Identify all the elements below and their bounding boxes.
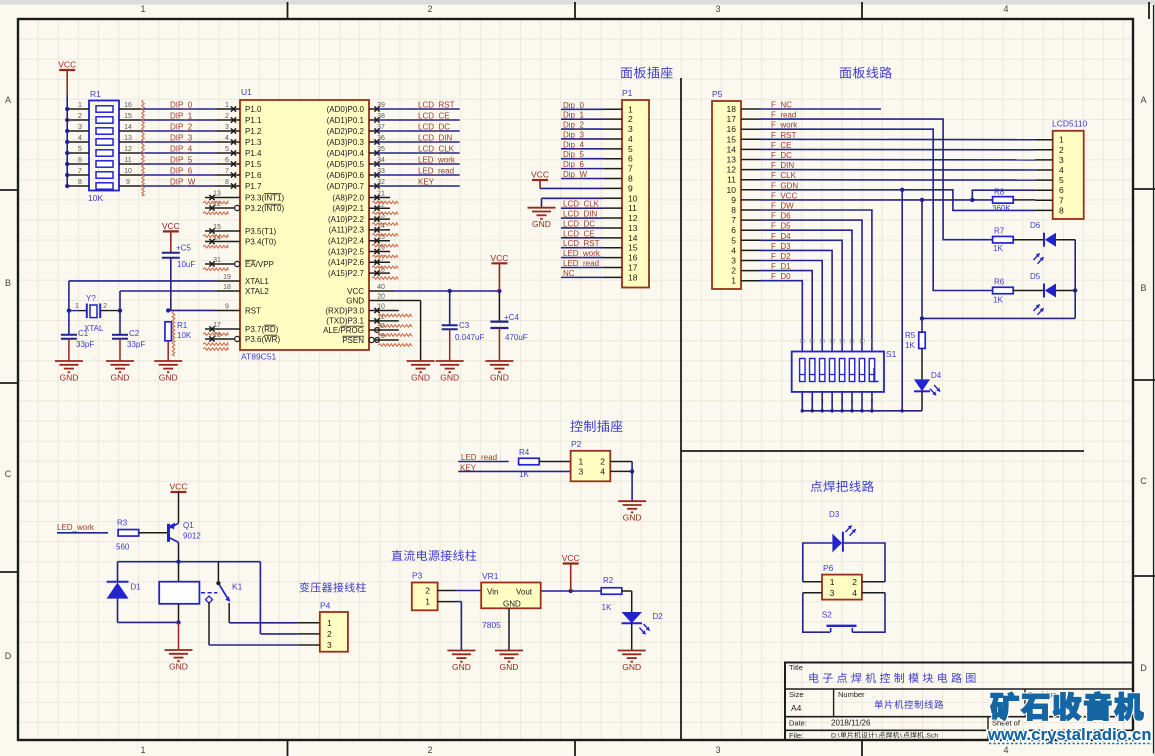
svg-text:R4: R4: [519, 448, 530, 457]
main title 电子点焊机控制模块电路图: [809, 673, 975, 683]
wire R2 to D2: [622, 591, 632, 612]
svg-text:3: 3: [715, 4, 720, 14]
svg-text:4: 4: [1003, 4, 1008, 14]
svg-text:9012: 9012: [183, 532, 201, 541]
wire KEY to P2: [458, 470, 570, 472]
wire XTAL2: [118, 291, 215, 313]
svg-text:2: 2: [425, 586, 430, 596]
svg-text:9: 9: [870, 339, 873, 345]
svg-text:GND: GND: [59, 373, 78, 383]
svg-text:8: 8: [628, 174, 633, 184]
svg-text:+C4: +C4: [504, 313, 519, 322]
svg-text:3: 3: [78, 124, 82, 131]
svg-text:40: 40: [377, 284, 385, 291]
svg-text:4: 4: [600, 466, 605, 476]
node labels LCD/LED/KEY: [418, 101, 456, 187]
svg-text:www.crystalradio.cn: www.crystalradio.cn: [987, 726, 1152, 744]
wire F_GDN: [760, 188, 1035, 411]
svg-text:4: 4: [852, 588, 857, 598]
svg-text:XTAL2: XTAL2: [245, 287, 269, 296]
svg-text:P3.7(RD): P3.7(RD): [245, 325, 279, 334]
section title 变压器接线柱: [300, 582, 367, 592]
wire P3 pin2 to VR1: [456, 590, 482, 592]
svg-text:9: 9: [225, 304, 229, 311]
resistor R5 1K: [905, 331, 925, 350]
svg-text:33pF: 33pF: [76, 340, 94, 349]
svg-text:33pF: 33pF: [127, 340, 145, 349]
svg-text:P1.5: P1.5: [245, 160, 262, 169]
wire P2 right to ground: [610, 462, 634, 502]
wire P6 to S2: [803, 593, 885, 632]
svg-text:Dip_W: Dip_W: [563, 170, 587, 179]
svg-text:17: 17: [213, 322, 221, 329]
svg-text:F_DW: F_DW: [771, 202, 794, 211]
svg-text:R1: R1: [90, 89, 101, 99]
svg-text:B: B: [1140, 283, 1146, 293]
svg-text:2: 2: [427, 745, 432, 755]
power VCC top-left: [58, 60, 76, 96]
svg-text:3: 3: [628, 124, 633, 134]
svg-text:5: 5: [1059, 175, 1064, 185]
U1 left no-ERC markers: [203, 201, 228, 350]
svg-text:F_DC: F_DC: [771, 151, 792, 160]
connector P4: [298, 601, 348, 652]
svg-text:16: 16: [628, 253, 638, 263]
svg-text:Title: Title: [789, 663, 803, 672]
node labels DIP_0..DIP_W: [170, 101, 196, 187]
svg-text:(AD7)P0.7: (AD7)P0.7: [327, 182, 365, 191]
svg-text:13: 13: [829, 339, 835, 345]
svg-text:6: 6: [731, 225, 736, 235]
svg-text:LED_read: LED_read: [418, 167, 454, 176]
wire LED_work to R3: [57, 532, 108, 534]
svg-text:1: 1: [327, 618, 332, 628]
svg-text:18: 18: [727, 104, 737, 114]
svg-text:GND: GND: [159, 373, 178, 383]
svg-text:EA/VPP: EA/VPP: [245, 260, 274, 269]
svg-text:DIP_1: DIP_1: [170, 112, 193, 121]
svg-text:10: 10: [124, 168, 132, 175]
svg-text:1: 1: [225, 102, 229, 109]
svg-text:16: 16: [124, 102, 132, 109]
R1 right pin stubs: [119, 102, 140, 186]
svg-text:5: 5: [628, 144, 633, 154]
svg-text:D: D: [5, 651, 12, 661]
svg-text:DIP_0: DIP_0: [170, 101, 193, 110]
svg-text:Vout: Vout: [516, 588, 533, 597]
svg-text:Dip_6: Dip_6: [563, 160, 584, 169]
svg-text:12: 12: [628, 213, 638, 223]
svg-text:P3: P3: [412, 571, 423, 581]
svg-text:3: 3: [715, 745, 720, 755]
wire contact NC to P4 pin3: [209, 602, 298, 645]
connector P1: [604, 88, 649, 288]
no-ERC vertical marker at R1 outputs: [142, 100, 145, 196]
svg-text:VCC: VCC: [162, 221, 180, 231]
svg-text:8: 8: [731, 205, 736, 215]
crystal Y?: [69, 294, 119, 333]
ground under R1: [154, 361, 182, 383]
wire F_VCC: [760, 190, 1035, 202]
resistor R7 1K: [993, 227, 1014, 254]
svg-text:F_D0: F_D0: [771, 272, 791, 281]
svg-text:14: 14: [124, 124, 132, 131]
svg-text:10K: 10K: [177, 331, 192, 340]
svg-text:(A9)P2.1: (A9)P2.1: [332, 204, 364, 213]
svg-text:4: 4: [225, 135, 229, 142]
svg-text:XTAL1: XTAL1: [245, 277, 269, 286]
wire LED return to R5 node: [920, 316, 1075, 320]
svg-text:KEY: KEY: [418, 178, 435, 187]
svg-text:1: 1: [1059, 135, 1064, 145]
svg-text:\: \: [876, 733, 878, 740]
svg-text:(A14)P2.6: (A14)P2.6: [328, 258, 365, 267]
svg-text:A: A: [5, 95, 11, 105]
svg-text:DIP_2: DIP_2: [170, 123, 193, 132]
wire R4 to P2: [539, 461, 570, 463]
svg-text:1K: 1K: [993, 296, 1003, 305]
svg-text:18: 18: [223, 284, 231, 291]
wire P3 pin1 to ground: [456, 602, 462, 651]
power VCC above C5: [162, 221, 180, 252]
svg-text:4: 4: [78, 135, 82, 142]
svg-text:P3.4(T0): P3.4(T0): [245, 237, 276, 246]
svg-text:10: 10: [727, 185, 737, 195]
svg-text:1: 1: [830, 577, 835, 587]
svg-text:1K: 1K: [602, 603, 612, 612]
svg-text:LCD_RST: LCD_RST: [563, 239, 600, 248]
svg-text:P3.2(INT0): P3.2(INT0): [245, 204, 284, 213]
svg-text:LCD_CE: LCD_CE: [563, 229, 595, 238]
svg-text:DIP_3: DIP_3: [170, 134, 193, 143]
svg-text:P1.3: P1.3: [245, 138, 262, 147]
svg-text:C2: C2: [129, 329, 140, 338]
power VCC above R2: [562, 553, 580, 591]
section title 点焊把线路: [811, 480, 874, 492]
svg-text:GND: GND: [623, 513, 642, 523]
diode D1: [107, 562, 142, 623]
number 单片机控制线路: [875, 700, 944, 709]
svg-text:(AD6)P0.6: (AD6)P0.6: [327, 171, 365, 180]
svg-text:P1.0: P1.0: [245, 105, 262, 114]
svg-text:(A11)P2.3: (A11)P2.3: [329, 226, 365, 235]
regulator VR1 7805: [481, 571, 541, 630]
svg-text:GND: GND: [440, 373, 459, 383]
svg-text:F_D3: F_D3: [771, 242, 791, 251]
resistor R2 1K: [601, 576, 622, 612]
svg-text:U1: U1: [241, 87, 252, 97]
svg-text:15: 15: [809, 339, 815, 345]
svg-text:PSEN: PSEN: [342, 336, 364, 345]
svg-text:(AD5)P0.5: (AD5)P0.5: [327, 160, 365, 169]
svg-text:1: 1: [628, 104, 633, 114]
svg-text:F_CLK: F_CLK: [771, 171, 797, 180]
wire R3 to Q1 base: [139, 532, 168, 534]
svg-text:C: C: [5, 469, 12, 479]
svg-text:F_CE: F_CE: [771, 141, 791, 150]
svg-text:10: 10: [859, 339, 865, 345]
LED D6: [1013, 221, 1056, 264]
svg-text:S1: S1: [886, 349, 897, 359]
switch S1 DIP-8: [792, 349, 897, 392]
svg-text:15: 15: [124, 113, 132, 120]
svg-text:12: 12: [124, 146, 132, 153]
wire S1 bottom bus: [801, 392, 923, 413]
svg-text:LED_read: LED_read: [461, 453, 497, 462]
capacitor C1 33pF: [61, 311, 94, 361]
svg-text:VCC: VCC: [562, 553, 580, 563]
svg-text:DIP_5: DIP_5: [170, 156, 193, 165]
svg-text:F_NC: F_NC: [771, 101, 792, 110]
svg-text:15: 15: [628, 243, 638, 253]
svg-text:6: 6: [225, 157, 229, 164]
svg-text:Size: Size: [789, 690, 804, 699]
wire U1 VCC pin: [394, 289, 502, 293]
svg-text:P1.2: P1.2: [245, 127, 262, 136]
svg-text:12: 12: [839, 339, 845, 345]
node label KEY: [460, 464, 477, 473]
section title 面板线路: [840, 67, 892, 79]
svg-text:C3: C3: [459, 321, 470, 330]
svg-text:1: 1: [425, 597, 430, 607]
svg-text:1: 1: [75, 303, 79, 310]
wires F_RST..F_CLK to LCD: [760, 139, 1035, 180]
svg-text:AT89C51: AT89C51: [241, 352, 277, 362]
LED D5: [1013, 272, 1056, 315]
U1 left pin names: [245, 105, 284, 344]
svg-text:LCD_CLK: LCD_CLK: [418, 145, 455, 154]
svg-text:3: 3: [1059, 155, 1064, 165]
svg-text:7: 7: [628, 164, 633, 174]
svg-text:F_VCC: F_VCC: [771, 191, 797, 200]
svg-text:D1: D1: [131, 583, 142, 592]
svg-text:2: 2: [600, 457, 605, 467]
svg-text:5: 5: [731, 235, 736, 245]
resistor R4 1K: [519, 448, 540, 479]
svg-text:14: 14: [819, 339, 825, 345]
transistor Q1 9012: [169, 521, 202, 542]
svg-text:F_DIN: F_DIN: [771, 161, 794, 170]
capacitor C5 10uF: [162, 244, 196, 270]
wire F_work to R6: [760, 129, 993, 290]
svg-text:17: 17: [628, 263, 638, 273]
svg-text:F_D2: F_D2: [771, 252, 791, 261]
svg-text:C1: C1: [78, 329, 89, 338]
wire LED_read to R4: [458, 461, 508, 463]
svg-text:1: 1: [140, 4, 145, 14]
svg-text:LED_work: LED_work: [563, 249, 601, 258]
switch S2: [822, 611, 857, 633]
svg-text:20: 20: [377, 294, 385, 301]
svg-text:LCD_RST: LCD_RST: [418, 101, 455, 110]
resistor network R1: [88, 89, 119, 203]
svg-text:Y?: Y?: [86, 294, 96, 303]
svg-text:6: 6: [78, 157, 82, 164]
svg-text:F_work: F_work: [771, 121, 798, 130]
ground under D2: [618, 651, 646, 673]
svg-text:R1: R1: [177, 321, 188, 330]
svg-text:16: 16: [799, 339, 805, 345]
svg-text:3: 3: [830, 588, 835, 598]
svg-text:P6: P6: [823, 563, 834, 573]
resistor R1 10K pulldown: [165, 321, 192, 361]
svg-text:+C5: +C5: [176, 244, 191, 253]
svg-text:Number: Number: [838, 690, 865, 699]
svg-text:GND: GND: [411, 373, 430, 383]
svg-text:.Sch: .Sch: [925, 733, 939, 740]
svg-text:GND: GND: [111, 373, 130, 383]
svg-text:(AD3)P0.3: (AD3)P0.3: [327, 138, 365, 147]
LED D3: [829, 510, 856, 552]
svg-text:0.047uF: 0.047uF: [455, 333, 484, 342]
svg-text:(AD1)P0.1: (AD1)P0.1: [327, 116, 365, 125]
svg-text:Dip_1: Dip_1: [563, 111, 584, 120]
svg-text:360K: 360K: [992, 204, 1011, 213]
svg-text:9: 9: [731, 195, 736, 205]
svg-text:A4: A4: [791, 703, 802, 713]
svg-text:(AD0)P0.0: (AD0)P0.0: [327, 105, 365, 114]
ground under C3: [436, 361, 464, 383]
svg-text:DIP_6: DIP_6: [170, 167, 193, 176]
svg-text:P2: P2: [571, 439, 582, 449]
svg-text:P3.6(WR): P3.6(WR): [245, 335, 280, 344]
capacitor C2 33pF: [112, 311, 145, 361]
svg-text:LCD_DIN: LCD_DIN: [418, 134, 452, 143]
svg-text:13: 13: [124, 135, 132, 142]
svg-text:2: 2: [731, 266, 736, 276]
svg-text:(A10)P2.2: (A10)P2.2: [328, 215, 365, 224]
power VCC above C4: [490, 253, 508, 291]
U1 left pin stubs: [205, 102, 240, 341]
svg-text:P1.4: P1.4: [245, 149, 262, 158]
watermark url: [987, 726, 1152, 744]
svg-text:4: 4: [731, 245, 736, 255]
svg-text:7: 7: [1059, 195, 1064, 205]
section title 直流电源接线柱: [392, 550, 477, 561]
connector P2: [571, 439, 611, 481]
svg-text:R3: R3: [117, 519, 128, 528]
svg-text:GND: GND: [503, 600, 521, 609]
power VCC above Q1: [170, 482, 188, 524]
title block frame: [785, 663, 1133, 741]
connector LCD5110: [1035, 119, 1087, 220]
svg-text:VCC: VCC: [347, 287, 364, 296]
svg-text:1: 1: [579, 457, 584, 467]
svg-text:P3.5(T1): P3.5(T1): [245, 227, 276, 236]
op-amp U1 AT89C51 body: [240, 87, 369, 362]
wire Q1 collector: [176, 542, 180, 581]
svg-text:(A13)P2.5: (A13)P2.5: [328, 247, 365, 256]
svg-text:Q1: Q1: [183, 521, 194, 530]
svg-text:6: 6: [628, 154, 633, 164]
svg-text:9: 9: [628, 183, 633, 193]
svg-text:D4: D4: [931, 371, 942, 380]
svg-text:P1.6: P1.6: [245, 171, 262, 180]
title block labels: [789, 663, 1057, 740]
wire F_VCC down to R5: [921, 200, 923, 332]
svg-text:(TXD)P3.1: (TXD)P3.1: [326, 317, 364, 326]
svg-text:Vin: Vin: [487, 588, 498, 597]
node labels P1 nets: [563, 101, 601, 278]
svg-text:F_read: F_read: [771, 111, 796, 120]
svg-text:A: A: [1140, 95, 1146, 105]
ground under relay: [165, 650, 193, 672]
svg-text:13: 13: [727, 155, 737, 165]
svg-text:DIP_4: DIP_4: [170, 145, 193, 154]
wire D5 cathode: [1056, 290, 1075, 292]
svg-text:7: 7: [78, 168, 82, 175]
svg-text:S2: S2: [822, 611, 832, 620]
power VCC at P1 pin9: [531, 170, 604, 189]
svg-text:GND: GND: [500, 662, 519, 672]
ground under C2: [106, 361, 134, 383]
svg-text:2: 2: [628, 114, 633, 124]
wire contact NO to P4 pin1: [229, 603, 298, 623]
svg-text:GND: GND: [622, 662, 641, 672]
section title 控制插座: [570, 420, 622, 432]
svg-text:16: 16: [727, 124, 737, 134]
section title 面板插座: [621, 66, 673, 78]
svg-text:F_D5: F_D5: [771, 222, 791, 231]
node label LED_work: [57, 523, 95, 532]
svg-text:D:\: D:\: [831, 733, 840, 740]
svg-text:R5: R5: [905, 331, 916, 340]
svg-text:\: \: [900, 733, 902, 740]
svg-text:13: 13: [628, 223, 638, 233]
svg-text:VCC: VCC: [531, 170, 549, 180]
svg-text:P3.3(INT1): P3.3(INT1): [245, 193, 284, 202]
resistor R6 1K: [993, 278, 1014, 305]
svg-text:2: 2: [1059, 145, 1064, 155]
svg-text:560: 560: [116, 543, 130, 552]
svg-text:2: 2: [103, 303, 107, 310]
svg-text:Dip_2: Dip_2: [563, 121, 584, 130]
svg-text:10K: 10K: [88, 193, 103, 203]
svg-text:3: 3: [731, 256, 736, 266]
svg-text:12: 12: [727, 165, 737, 175]
svg-text:RST: RST: [245, 306, 261, 315]
wire D2 to ground: [631, 623, 633, 650]
svg-text:5: 5: [78, 146, 82, 153]
resistor R3 560: [116, 519, 139, 552]
svg-text:File:: File:: [789, 731, 803, 740]
svg-text:GND: GND: [490, 373, 509, 383]
svg-text:7805: 7805: [482, 620, 501, 630]
svg-text:11: 11: [124, 157, 131, 164]
wire F_read to R7: [760, 119, 993, 240]
wire D3 loop: [803, 543, 885, 582]
svg-text:Dip_0: Dip_0: [563, 101, 584, 110]
wire VR1 GND pin to ground: [508, 608, 510, 650]
svg-text:11: 11: [849, 339, 855, 345]
section divider lines: [681, 78, 1084, 740]
svg-text:F_RST: F_RST: [771, 131, 796, 140]
svg-text:LED_read: LED_read: [563, 259, 599, 268]
svg-text:LCD_DIN: LCD_DIN: [563, 210, 597, 219]
svg-text:2: 2: [225, 113, 229, 120]
R1 left pin stubs: [67, 102, 89, 186]
svg-text:10uF: 10uF: [177, 260, 195, 269]
svg-text:2: 2: [427, 4, 432, 14]
svg-text:P1: P1: [622, 88, 633, 98]
svg-text:6: 6: [1059, 185, 1064, 195]
svg-text:11: 11: [628, 203, 637, 213]
svg-text:D2: D2: [653, 612, 664, 621]
svg-text:Dip_3: Dip_3: [563, 131, 584, 140]
svg-text:GND: GND: [169, 662, 188, 672]
svg-text:17: 17: [727, 114, 737, 124]
svg-text:LED_work: LED_work: [418, 156, 456, 165]
